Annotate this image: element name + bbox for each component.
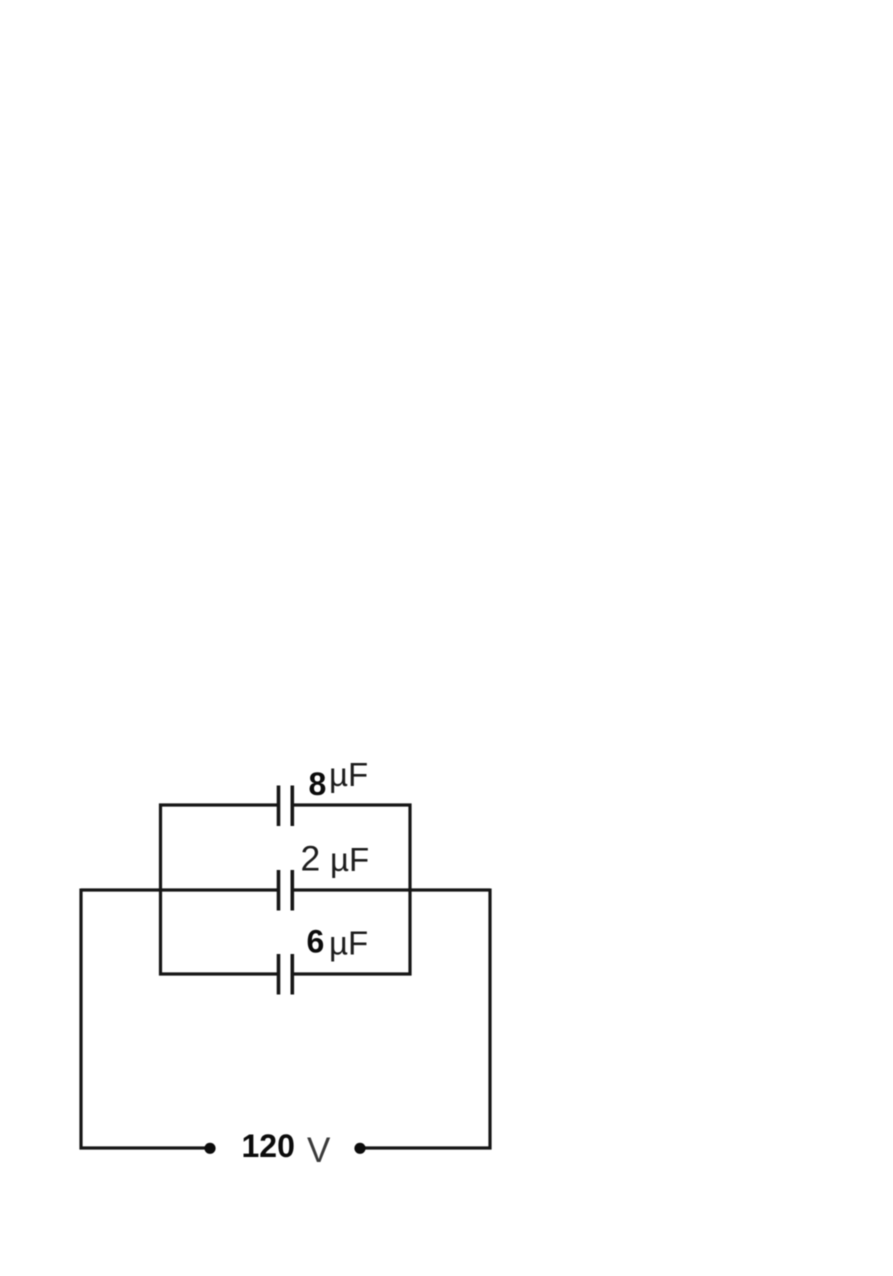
wire: inner right vertical	[408, 804, 411, 976]
capacitor C2 2uF plates	[279, 870, 293, 911]
wire: middle left segment to C2	[81, 888, 278, 891]
wire: inner top-right segment from C1	[293, 803, 412, 806]
wire: inner bottom-right segment from C3	[293, 972, 412, 975]
svg-text:6: 6	[307, 924, 325, 960]
wire: inner left vertical	[159, 804, 162, 976]
svg-text:µF: µF	[330, 841, 369, 878]
svg-text:V: V	[307, 1131, 331, 1170]
svg-text:120: 120	[242, 1128, 295, 1164]
wire: bottom right segment from source terminal	[360, 1146, 492, 1149]
value label 2 uF	[301, 839, 370, 879]
wire: inner bottom-left segment to C3	[159, 972, 278, 975]
wire: bottom left segment to source terminal	[80, 1146, 211, 1149]
svg-text:µF: µF	[329, 756, 368, 793]
svg-text:2: 2	[301, 839, 321, 879]
wire: inner top-left segment to C1	[159, 803, 278, 806]
value label 6 uF	[307, 924, 369, 962]
value label 8 uF	[309, 756, 369, 802]
capacitor C3 6uF plates	[279, 954, 293, 995]
value label 120 V source voltage	[242, 1128, 332, 1170]
wire: outer right vertical	[488, 889, 491, 1150]
wire: outer left vertical	[79, 889, 82, 1150]
junction: source right terminal dot	[354, 1143, 365, 1154]
svg-text:8: 8	[309, 766, 327, 802]
junction: source left terminal dot	[204, 1143, 215, 1154]
capacitor C1 8uF plates	[279, 786, 293, 827]
wire: middle right segment from C2	[293, 888, 490, 891]
svg-text:µF: µF	[329, 925, 368, 962]
